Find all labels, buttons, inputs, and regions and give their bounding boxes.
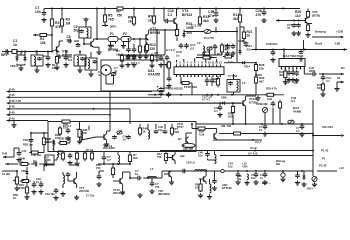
diode VD3a xyxy=(23,55,26,62)
label C44 xyxy=(123,135,128,142)
resistor R54 xyxy=(111,166,114,177)
label R3 xyxy=(66,18,71,26)
wire diode loop bottom xyxy=(17,64,25,66)
svg-text:BY 2.2: BY 2.2 xyxy=(104,144,113,148)
resistor R51 xyxy=(25,185,28,195)
wire F1 F2 row xyxy=(97,38,146,40)
wire C8 to tank xyxy=(74,40,79,42)
svg-text:VD2,3: VD2,3 xyxy=(10,64,18,68)
svg-text:500 r: 500 r xyxy=(307,187,313,191)
capacitor C36 xyxy=(293,70,299,77)
wire VT5 emitter out xyxy=(308,23,312,24)
label R45 xyxy=(317,83,322,90)
label R39 xyxy=(228,112,233,119)
capacitor C37 xyxy=(218,105,223,111)
resistor R39 xyxy=(231,104,234,114)
label R53 xyxy=(133,153,138,160)
resistor R45 xyxy=(321,82,324,92)
svg-text:VD5 KD522: VD5 KD522 xyxy=(168,87,183,91)
svg-text:VD6: VD6 xyxy=(221,96,227,100)
wire tune line xyxy=(7,148,19,157)
svg-text:L4: L4 xyxy=(77,127,81,131)
svg-text:1u: 1u xyxy=(36,180,39,184)
ground R51 xyxy=(24,195,29,200)
label R13 xyxy=(203,15,209,23)
diode VD4 varactor xyxy=(53,140,56,146)
label C58r xyxy=(237,175,242,181)
inductor L9b xyxy=(210,184,212,193)
wire VT11 xyxy=(166,151,175,164)
wire bus line 2 arrow xyxy=(7,96,11,99)
ground C39 xyxy=(290,78,295,83)
connector X2 xyxy=(312,176,317,181)
capacitor C63 xyxy=(263,124,268,130)
wire output fwd xyxy=(312,36,344,39)
wire Lin stem xyxy=(36,52,38,69)
capacitor Cm1 xyxy=(126,55,131,61)
svg-text:3k3: 3k3 xyxy=(155,54,160,58)
label R50b xyxy=(96,163,101,170)
inductor L8 xyxy=(195,170,207,171)
ground C51a xyxy=(67,161,72,166)
resistor R29 xyxy=(254,75,257,85)
label C50b xyxy=(45,192,55,196)
label C63 xyxy=(259,126,263,132)
svg-text:KB109: KB109 xyxy=(45,140,54,144)
svg-text:BY: BY xyxy=(178,137,182,141)
wire x256 to DA2 xyxy=(256,74,262,76)
resistor R1 xyxy=(55,54,58,65)
ground vt12 xyxy=(169,180,174,185)
svg-text:P.45: P.45 xyxy=(9,116,15,120)
label line A xyxy=(255,140,261,144)
capacitor Cm4 xyxy=(165,55,170,61)
label R58 xyxy=(195,184,200,190)
wire bus gnd stub xyxy=(257,95,259,96)
wire R26 to VT5 xyxy=(307,17,309,18)
svg-text:0.1: 0.1 xyxy=(259,129,263,132)
transistor VT5 body xyxy=(305,17,308,23)
capacitor C55 xyxy=(136,176,142,181)
wire bus line 1 arrow xyxy=(7,90,11,93)
svg-text:BF324: BF324 xyxy=(182,13,192,17)
wire VT6 base xyxy=(81,122,110,141)
ground C54a xyxy=(96,182,101,187)
wire R17 top xyxy=(239,9,241,13)
capacitor C4 xyxy=(46,55,51,61)
svg-text:VD9: VD9 xyxy=(21,169,27,173)
wire osc top xyxy=(184,27,216,32)
svg-text:10k: 10k xyxy=(116,52,121,56)
capacitor C52s xyxy=(181,169,187,174)
capacitor C33t xyxy=(228,81,233,85)
transistor VT1 xyxy=(57,46,60,52)
label UPC xyxy=(158,189,170,196)
junction x97 xyxy=(96,8,98,41)
wire bus line 5 xyxy=(11,114,111,116)
ground C56 xyxy=(149,189,154,194)
label C34 xyxy=(22,149,27,153)
ground C38 xyxy=(287,78,292,83)
svg-text:C14 56: C14 56 xyxy=(204,36,214,40)
crystal oval xyxy=(182,143,195,147)
wire mid row xyxy=(118,54,165,56)
capacitor C16 xyxy=(179,43,184,49)
capacitor C45r xyxy=(300,124,305,130)
svg-text:DA2 TDA7040: DA2 TDA7040 xyxy=(283,54,304,58)
resistor Rm1 xyxy=(120,53,123,63)
svg-text:+12: +12 xyxy=(339,166,344,170)
svg-text:0.1: 0.1 xyxy=(294,81,298,85)
capacitor C50 xyxy=(39,182,44,188)
svg-text:10k: 10k xyxy=(259,66,264,70)
wire afc h xyxy=(192,128,214,130)
wire top rail corner right xyxy=(307,9,309,12)
wire Rm6 xyxy=(168,70,170,77)
capacitor C60 xyxy=(236,172,241,178)
wire c48 links xyxy=(208,151,215,160)
junction afc xyxy=(191,123,193,125)
svg-text:P.45: P.45 xyxy=(9,87,15,91)
label C10 xyxy=(168,9,174,17)
wire x97 vertical xyxy=(96,9,98,39)
wire C37 stub xyxy=(219,103,221,105)
label DA3 xyxy=(291,96,297,103)
capacitor C28 xyxy=(271,50,276,56)
svg-text:1u: 1u xyxy=(135,172,138,176)
svg-text:2SC535: 2SC535 xyxy=(79,189,90,193)
wire x313 lower xyxy=(312,151,314,177)
capacitor C38 xyxy=(287,70,292,76)
tank L1 box xyxy=(79,27,91,38)
resistor Rm2 xyxy=(150,53,153,63)
resistor R42 xyxy=(88,126,90,130)
label C48 xyxy=(198,151,203,158)
ground R45 xyxy=(320,92,325,97)
box VCO module xyxy=(48,122,196,152)
wire VT4 collector xyxy=(176,9,178,17)
junction tuner rail xyxy=(303,49,305,51)
ground C29 xyxy=(291,31,296,36)
ground C25 xyxy=(230,51,235,56)
diode VD6 xyxy=(220,101,227,104)
wire tune links xyxy=(31,133,48,153)
label C13 xyxy=(191,24,202,28)
junction row2 xyxy=(16,51,81,53)
svg-text:Bbix —: Bbix — xyxy=(262,181,271,185)
svg-text:VT8: VT8 xyxy=(46,159,51,162)
label C19 xyxy=(114,66,118,73)
transistor VT13b xyxy=(204,176,207,182)
IC DA1 body xyxy=(174,67,224,75)
wire R3 top xyxy=(61,9,63,17)
junction audio node xyxy=(322,73,324,75)
junction tank node xyxy=(77,43,85,45)
ground C57b xyxy=(212,186,217,191)
svg-text:620: 620 xyxy=(317,86,322,90)
wire VT5 base wire xyxy=(280,20,305,22)
capacitor C49 xyxy=(32,182,37,188)
svg-text:1k: 1k xyxy=(128,19,132,23)
wire R36 up xyxy=(79,122,81,128)
label 153B xyxy=(256,102,268,106)
wire R4 to node xyxy=(49,34,52,36)
wire tank down xyxy=(83,38,85,44)
tank L5 box xyxy=(227,80,240,93)
junction demod xyxy=(237,170,303,172)
ground C15a xyxy=(131,54,136,59)
ground C7 xyxy=(41,18,46,23)
svg-text:F2: F2 xyxy=(123,32,127,36)
wire bus line 5 arrow xyxy=(7,113,11,116)
wire tank top stub xyxy=(85,22,87,28)
transistor VT12 xyxy=(169,171,172,177)
label C2b xyxy=(98,70,102,77)
ground C36 xyxy=(294,78,299,83)
svg-text:153B NB: 153B NB xyxy=(256,102,268,106)
resistor R33 xyxy=(58,126,61,136)
wire above-IC link xyxy=(196,55,237,58)
svg-text:P.45: P.45 xyxy=(9,111,15,115)
pot circle xyxy=(262,107,267,112)
junction line A xyxy=(252,139,254,141)
label Rm1 xyxy=(116,49,121,56)
label IF1 xyxy=(250,146,257,150)
wire VT1 collector up xyxy=(59,41,63,46)
label IF2 xyxy=(248,151,257,155)
ground C23 xyxy=(225,51,230,56)
capacitor C11 xyxy=(76,44,81,48)
wire R2 top xyxy=(51,9,53,17)
capacitor C10 xyxy=(164,19,170,24)
junction IF1 xyxy=(254,150,314,152)
wire vt tuner stub xyxy=(303,40,305,50)
ground VT6 xyxy=(104,142,109,147)
resistor R43b xyxy=(61,151,64,161)
junction IM feed xyxy=(312,133,314,135)
trimmer C19 xyxy=(111,72,116,76)
svg-text:UM 1/51: UM 1/51 xyxy=(322,125,333,129)
capacitor C2 input xyxy=(5,49,9,54)
svg-text:UY-B: UY-B xyxy=(250,146,257,150)
svg-text:MF1: MF1 xyxy=(1,53,8,57)
svg-text:2.2: 2.2 xyxy=(190,46,195,50)
capacitor C7 xyxy=(42,11,47,17)
svg-text:3k9: 3k9 xyxy=(279,73,284,77)
svg-text:270k: 270k xyxy=(19,186,25,190)
resistor R37 xyxy=(42,136,45,147)
capacitor Cm2 xyxy=(132,55,137,61)
svg-text:30: 30 xyxy=(114,69,118,73)
label IM xyxy=(322,125,333,129)
label C16 xyxy=(176,50,182,57)
capacitor Cin xyxy=(37,57,42,61)
label VD23 xyxy=(10,64,18,68)
junction L3 xyxy=(219,102,234,104)
transistor VT14 xyxy=(186,137,189,143)
ground C62 xyxy=(262,180,267,185)
arrow AGC out xyxy=(102,24,108,27)
wire IM out xyxy=(313,134,345,137)
junction x256 top xyxy=(255,49,257,51)
inductor L0 xyxy=(77,57,79,66)
label Cm xyxy=(131,61,140,65)
label APC xyxy=(222,183,232,190)
wire VT10 xyxy=(113,172,130,190)
resistor R18 xyxy=(175,27,178,37)
wire C26 top xyxy=(263,9,265,11)
label R50 xyxy=(13,193,18,200)
resistor R47v xyxy=(164,152,167,161)
ground X2 xyxy=(312,182,317,187)
ground Rm1 xyxy=(119,63,124,68)
ground C63 xyxy=(262,132,267,137)
svg-text:VD4: VD4 xyxy=(244,65,250,69)
capacitor C61 xyxy=(254,172,259,178)
label +12r xyxy=(339,166,344,170)
label VT11b xyxy=(177,122,184,129)
resistor R38b xyxy=(29,151,40,154)
wire osc right xyxy=(216,31,237,33)
capacitor Cm3 xyxy=(159,55,164,61)
resistor R47b xyxy=(83,151,86,161)
junction IM xyxy=(312,135,314,137)
wire IC pin risers xyxy=(177,58,217,62)
wire VT9 emitter xyxy=(245,106,247,124)
tank Lin box xyxy=(31,55,43,66)
ground diode pair xyxy=(18,66,23,71)
wire bl links xyxy=(22,160,41,185)
wire IF line A xyxy=(213,139,262,141)
wire caps row top xyxy=(129,39,147,47)
label IM70 xyxy=(221,124,232,128)
capacitor Cb3 xyxy=(163,130,168,134)
wire L3 extension xyxy=(152,102,243,104)
wire VD4 row xyxy=(224,63,256,64)
svg-text:4k3: 4k3 xyxy=(233,17,239,21)
inductor L7a xyxy=(118,155,120,165)
ground C45r xyxy=(299,132,304,137)
wire bus gnd xyxy=(13,121,15,123)
svg-text:910: 910 xyxy=(228,115,233,119)
label C27r xyxy=(287,23,293,30)
wire L0 stem xyxy=(79,52,81,69)
label VD4 xyxy=(244,65,250,69)
resistor R12 xyxy=(145,42,148,52)
label C45r xyxy=(296,126,300,133)
svg-text:150: 150 xyxy=(195,186,200,189)
ground Lin xyxy=(34,68,39,73)
arrow +12V right xyxy=(343,48,347,51)
ground L2b xyxy=(88,72,93,77)
wire VT6 internals xyxy=(60,137,107,143)
ground R50 xyxy=(14,186,19,191)
capacitor C27 xyxy=(242,41,248,48)
wire bus line 1 xyxy=(11,91,153,93)
capacitor C15a xyxy=(132,47,137,53)
svg-text:12 (B): 12 (B) xyxy=(2,172,10,176)
svg-text:C34: C34 xyxy=(22,149,27,153)
label R41 xyxy=(279,70,285,77)
svg-text:FP1P-049: FP1P-049 xyxy=(184,85,197,89)
capacitor C30 xyxy=(296,23,301,27)
inductor L8v xyxy=(215,155,217,164)
resistor R40b xyxy=(278,100,281,110)
ground Rm2 xyxy=(149,63,154,68)
wire c61b xyxy=(297,171,299,173)
wire bus5 drop xyxy=(109,91,111,122)
ground VT7 xyxy=(74,195,79,200)
svg-text:BPU: BPU xyxy=(110,25,116,29)
label L10 xyxy=(242,162,248,169)
label c61 xyxy=(251,174,256,180)
label R26 xyxy=(295,10,301,18)
label tune xyxy=(2,152,8,156)
svg-text:10k: 10k xyxy=(83,131,88,135)
wire bus line 4 arrow xyxy=(7,108,11,111)
svg-text:Bnu3: Bnu3 xyxy=(315,42,323,46)
svg-text:C28 22n: C28 22n xyxy=(266,42,278,46)
wire VT4 emitter down xyxy=(176,25,178,31)
label VT4 xyxy=(182,9,192,17)
wire x256 col xyxy=(255,71,257,95)
ground osc xyxy=(207,55,212,60)
wire bottom row1 xyxy=(2,164,44,171)
label VD5 xyxy=(168,87,183,91)
transistor VT9 xyxy=(243,100,246,106)
wire C12 top xyxy=(215,9,217,12)
wire bus4 drop xyxy=(129,109,131,124)
svg-text:4.7: 4.7 xyxy=(107,158,111,162)
label Cb1 xyxy=(63,124,72,128)
junction x256 mid xyxy=(255,74,257,76)
svg-text:C27: C27 xyxy=(238,39,244,43)
wire bus line 4 xyxy=(11,108,131,110)
label VD6 xyxy=(221,96,227,100)
box VT8 xyxy=(45,155,54,165)
wire c56 xyxy=(151,178,153,181)
capacitor C51a xyxy=(68,153,73,159)
wire bus line 6 arrow xyxy=(7,119,11,122)
label C8 xyxy=(67,35,71,43)
label F2 xyxy=(123,32,127,36)
inductor L7 xyxy=(148,177,157,179)
wire bus line 3 arrow xyxy=(7,102,11,105)
svg-text:P1: P1 xyxy=(322,157,326,161)
resistor R47h xyxy=(265,93,276,96)
wire vd10 xyxy=(303,171,305,174)
label C27 xyxy=(238,39,244,43)
wire node to VT2 xyxy=(62,26,91,44)
wire bus line 2 xyxy=(11,96,162,98)
inductor L4a xyxy=(53,141,54,152)
svg-text:10u: 10u xyxy=(228,165,233,169)
resistor R6 xyxy=(132,15,135,26)
wire fp link xyxy=(181,77,192,95)
wire VT9 collector xyxy=(246,96,256,100)
diode VD1 xyxy=(182,31,185,38)
junction top rail xyxy=(51,8,284,10)
ground VT1 emitter xyxy=(57,54,62,59)
inductor L2 xyxy=(203,46,205,55)
inductor L4b xyxy=(148,130,150,139)
label C56ic xyxy=(228,74,237,78)
ground R58 xyxy=(198,193,203,198)
diode VD9 xyxy=(26,169,29,175)
wire bm row xyxy=(44,158,57,164)
resistor R28 xyxy=(254,62,257,72)
label FP1P xyxy=(184,85,197,89)
